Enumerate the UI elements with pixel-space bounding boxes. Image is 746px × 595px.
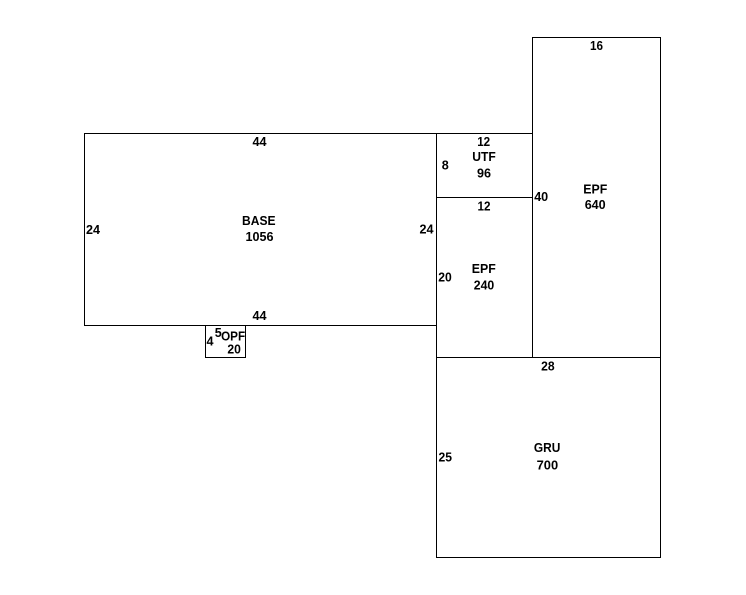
svg-text:4: 4 <box>207 333 215 348</box>
svg-text:40: 40 <box>534 189 548 204</box>
wire: BASE bottom wall <box>84 325 437 327</box>
wire: BASE right / EPF240 left / GRU left wall <box>436 133 438 558</box>
wire: OPF bottom wall <box>205 357 246 359</box>
svg-text:20: 20 <box>227 342 241 357</box>
svg-text:640: 640 <box>585 197 606 212</box>
svg-text:44: 44 <box>253 308 268 323</box>
svg-text:1056: 1056 <box>246 229 274 244</box>
wire: OPF left wall <box>205 325 207 358</box>
svg-text:24: 24 <box>420 222 435 237</box>
svg-text:8: 8 <box>442 158 449 173</box>
svg-text:UTF: UTF <box>472 149 496 164</box>
wire: EPF640 right / GRU right wall <box>660 37 662 558</box>
svg-text:44: 44 <box>253 134 268 149</box>
svg-text:700: 700 <box>537 458 559 473</box>
wire: BASE left wall <box>84 133 86 326</box>
svg-text:28: 28 <box>541 358 555 373</box>
svg-text:12: 12 <box>477 134 490 149</box>
svg-text:25: 25 <box>439 450 453 465</box>
svg-text:EPF: EPF <box>583 182 607 197</box>
wire: UTF bottom wall <box>436 197 533 199</box>
wire: GRU bottom wall <box>436 557 661 559</box>
svg-text:GRU: GRU <box>534 440 561 455</box>
wire: OPF right wall <box>245 325 247 358</box>
svg-text:12: 12 <box>478 199 491 214</box>
svg-text:BASE: BASE <box>242 213 276 228</box>
svg-text:24: 24 <box>86 222 101 237</box>
svg-text:96: 96 <box>477 166 491 181</box>
svg-text:16: 16 <box>590 38 603 53</box>
svg-text:EPF: EPF <box>472 261 496 276</box>
wire: UTF right / EPF640 left wall <box>532 37 534 358</box>
svg-text:240: 240 <box>474 277 495 292</box>
wire: BASE/UTF top wall <box>84 133 533 135</box>
wire: EPF640 bottom / GRU top wall <box>436 357 661 359</box>
svg-text:20: 20 <box>438 270 452 285</box>
wire: EPF640 top wall <box>532 37 661 39</box>
